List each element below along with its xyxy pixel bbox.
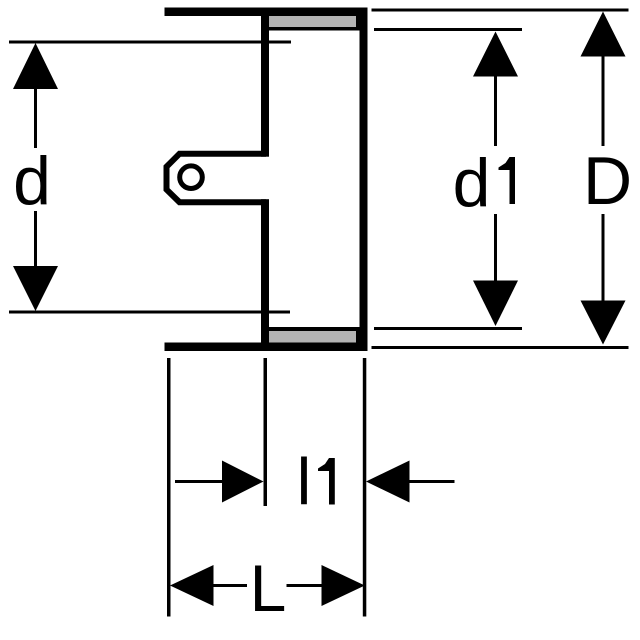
dimension d arrow up — [13, 43, 58, 89]
inner wall lower segment — [261, 199, 269, 351]
extension line L left — [167, 358, 171, 617]
dimension D line lower — [602, 214, 605, 301]
dimension D arrow down — [581, 301, 626, 345]
fitting top wall — [165, 8, 368, 17]
extension line D top — [372, 9, 629, 12]
dimension d1 line lower — [494, 214, 497, 281]
svg-text:l: l — [297, 445, 312, 519]
svg-text:L: L — [250, 551, 287, 625]
extension line d bottom — [9, 311, 290, 314]
dimension d1 arrow up — [473, 32, 518, 77]
dimension L right line — [287, 584, 323, 587]
clip hole — [180, 166, 203, 189]
dimension l1 left arrow — [222, 461, 264, 503]
extension line d top — [9, 41, 291, 44]
dimension D line upper — [602, 56, 605, 146]
extension line L right — [363, 358, 367, 617]
extension line d1 bottom — [374, 327, 522, 330]
svg-text:d: d — [13, 143, 51, 219]
dimension l1 right arrow — [366, 461, 410, 503]
svg-text:d: d — [453, 145, 491, 221]
svg-text:D: D — [583, 143, 632, 219]
inner wall upper segment — [261, 8, 269, 157]
dimension d1 arrow down — [473, 281, 518, 327]
fitting bottom wall — [165, 343, 368, 352]
bottom seal ring (gray) — [269, 331, 356, 343]
label l1 — [297, 445, 335, 519]
label d1 — [453, 145, 515, 221]
clip tab outline — [167, 154, 267, 203]
dimension d line lower — [34, 211, 37, 267]
dimension d1 line upper — [494, 76, 497, 146]
extension line d1 top — [374, 28, 522, 31]
dimension d arrow down — [13, 266, 58, 311]
fitting right wall — [360, 8, 368, 352]
dimension L left line — [213, 584, 247, 587]
dimension d line upper — [34, 88, 37, 148]
dimension L left arrow — [170, 565, 214, 606]
top seal ring (gray) — [269, 16, 356, 27]
extension line D bottom — [372, 346, 629, 349]
dimension l1 left line — [175, 480, 223, 483]
dimension L right arrow — [322, 565, 365, 606]
dimension D arrow up — [581, 12, 626, 57]
bottom seal seat border — [269, 327, 360, 343]
top seal seat border — [269, 16, 360, 31]
extension line l1 middle — [264, 358, 268, 506]
dimension l1 right line — [409, 480, 455, 483]
